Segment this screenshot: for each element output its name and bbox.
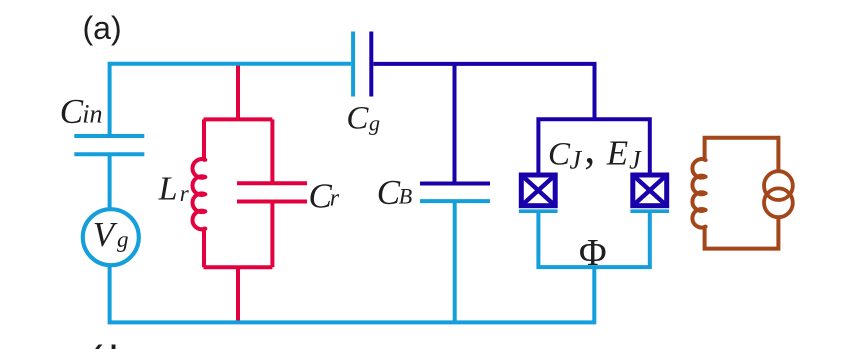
wire: JJ loop upper horizontal and drops (538, 119, 649, 172)
svg-text:g: g (369, 111, 380, 136)
svg-text:in: in (82, 100, 102, 129)
voltage source V_g (83, 209, 139, 265)
wire: C_B feed (453, 64, 457, 184)
resonator red stem bottom (236, 267, 240, 322)
inductor L_r (left branch coil) (192, 119, 205, 267)
svg-text:J: J (570, 146, 583, 175)
svg-text:C: C (346, 101, 369, 137)
resonator red stem top (236, 64, 240, 120)
svg-text:C: C (60, 92, 84, 131)
svg-text:C: C (377, 173, 401, 212)
svg-text:r: r (330, 185, 340, 211)
wire: cyan bar under left JJ (519, 209, 558, 213)
svg-text:B: B (399, 184, 412, 209)
svg-text:(a): (a) (83, 10, 122, 46)
Josephson junction JJ2 box (633, 175, 667, 206)
wire: cyan bar under right JJ (630, 209, 669, 213)
wire: flux loop lower U (538, 212, 649, 267)
wire: V_g down, bottom bus, riser to flux loop (110, 265, 595, 322)
flux bias loop (brown): top edge and right drop to source (705, 138, 779, 172)
wire: dark blue top bus with right drop (373, 64, 594, 119)
svg-text:r: r (180, 181, 190, 206)
svg-text:J: J (629, 146, 642, 175)
svg-text:g: g (117, 227, 129, 252)
svg-text:C: C (548, 137, 571, 173)
capacitor C_g left plate (cyan) (351, 32, 355, 97)
svg-text:,: , (584, 124, 595, 173)
svg-text:E: E (606, 134, 628, 173)
resonator frame bottom (204, 265, 273, 269)
svg-text:L: L (158, 171, 178, 208)
capacitor C_g right plate (dark blue) (369, 32, 373, 97)
resonator frame top (204, 117, 273, 121)
capacitor C_in (74, 136, 144, 154)
capacitor C_r (right branch) (270, 119, 274, 183)
wire: C_in to V_g (108, 154, 112, 209)
capacitor C_B top plate (dark blue) (420, 182, 490, 186)
Josephson junction JJ1 box (521, 175, 555, 206)
capacitor C_B bottom plate (cyan) + wire to bus (420, 199, 490, 203)
svg-text:Φ: Φ (579, 232, 607, 274)
current source circles (764, 171, 793, 200)
wire: cyan top bus and left drop (110, 64, 351, 136)
inductor coil (brown, left edge) (692, 159, 705, 227)
svg-text:V: V (93, 215, 118, 254)
svg-text:(b: (b (88, 337, 139, 349)
brown loop bottom (705, 217, 779, 248)
